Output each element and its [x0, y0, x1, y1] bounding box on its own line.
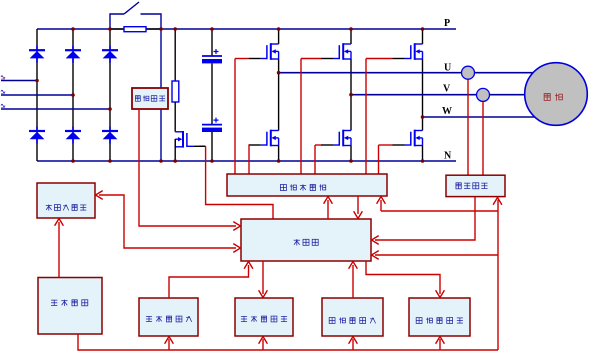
wire rectifier leg 3: [109, 29, 111, 161]
wire drive-protect to controller: [354, 196, 363, 219]
wire gate Q3: [366, 59, 393, 175]
wire voltage-detect to controller: [139, 109, 241, 230]
motor M1 (电机): [525, 63, 588, 126]
wire leg2 drain lower: [350, 95, 352, 131]
block digital input (开关量输入): [139, 298, 198, 336]
svg-text:N: N: [444, 151, 452, 162]
junction on N at x=212: [210, 159, 214, 163]
wire psu-bus to drive-protect: [377, 197, 386, 212]
junction W: [421, 115, 425, 119]
wire phase V: [351, 94, 525, 96]
junction on N at x=175.2: [173, 159, 177, 163]
wire AC input L1: [1, 80, 37, 82]
junction on P at x=351: [349, 27, 353, 31]
junction on P at x=422.5: [421, 27, 425, 31]
junction on P at x=278.6: [277, 27, 281, 31]
block voltage detect (电压检测): [132, 88, 168, 109]
wire keypad to controller: [96, 191, 241, 253]
wire leg1 source to N: [278, 146, 280, 162]
svg-text:V: V: [443, 84, 451, 95]
svg-text:W: W: [442, 106, 452, 117]
block analog input (模拟量输入): [322, 298, 383, 336]
wire leg2 source to V: [350, 59, 352, 95]
wire rail to digital-output: [259, 337, 268, 351]
diode D2 (rectifier top): [65, 46, 81, 63]
wire rectifier leg 1: [36, 29, 38, 161]
block current detect (电流检测): [446, 175, 505, 196]
wire AC input L2: [1, 94, 73, 96]
wire rail to analog-output: [436, 337, 445, 351]
current sensor CT1: [462, 66, 475, 79]
junction U: [277, 71, 281, 75]
diode D5 (rectifier bottom): [65, 127, 81, 144]
wire psu riser: [493, 198, 502, 351]
transistor Q4 (lower U): [249, 130, 279, 147]
block digital output (开关量输出): [235, 298, 293, 336]
wire gate Q1: [235, 59, 249, 175]
node label W: [442, 106, 452, 117]
junction on N at x=278.6: [277, 159, 281, 163]
junction on N at x=351: [349, 159, 353, 163]
wire P bus (node P): [37, 28, 456, 30]
junction AC L1: [35, 79, 39, 83]
transistor Q2 (upper V): [321, 43, 351, 60]
wire leg3 drain lower: [422, 117, 424, 131]
wire P to C1: [211, 29, 213, 56]
wire leg3 drain upper: [422, 29, 424, 44]
wire PSU bottom rail: [78, 334, 498, 350]
wire gate Q7 to controller: [206, 146, 273, 219]
junction on N at x=161: [159, 159, 163, 163]
diode D6 (rectifier bottom): [102, 127, 118, 144]
diode D4 (rectifier bottom): [29, 127, 45, 144]
junction on N at x=73: [71, 159, 75, 163]
node label V: [443, 84, 451, 95]
svg-text:P: P: [444, 18, 450, 29]
junction on P at x=175.2: [173, 27, 177, 31]
capacitor C1: [202, 49, 222, 63]
wire psu-bus to controller right: [372, 251, 499, 260]
wire psu to keypad: [55, 219, 64, 278]
wire brake leg upper: [174, 29, 176, 81]
switch S1 (bypass): [110, 2, 161, 29]
junction on P at x=73: [71, 27, 75, 31]
svg-text:U: U: [444, 63, 451, 74]
wire phase W: [423, 116, 535, 118]
diode D3 (rectifier top): [102, 46, 118, 63]
wire controller to drive-protect: [324, 197, 333, 220]
wire N bus (node N): [37, 160, 456, 162]
junction on P at x=161: [159, 27, 163, 31]
wire C1 to C2: [211, 63, 213, 124]
wire CT2 to current detect: [482, 95, 484, 175]
wire gate Q4: [248, 145, 250, 174]
wire controller to digital-output: [259, 261, 268, 298]
capacitor C2: [202, 118, 222, 132]
wire leg2 drain upper: [350, 29, 352, 44]
transistor Q3 (upper W): [393, 43, 423, 60]
wire leg2 source to N: [350, 146, 352, 162]
wire voltage sense (P to N): [160, 29, 162, 161]
resistor R1 (brake): [172, 81, 179, 102]
wire AC input L3: [1, 108, 110, 110]
transistor Q1 (upper U): [249, 43, 279, 60]
node label N: [444, 151, 452, 162]
AC input source L3: [1, 104, 5, 107]
wire rectifier leg 2: [72, 29, 74, 161]
wire leg1 drain upper: [278, 29, 280, 44]
wire gate Q2: [301, 59, 321, 175]
block analog output (模拟量输出): [409, 298, 470, 336]
wire leg1 drain lower: [278, 73, 280, 131]
transistor Q6 (lower W): [393, 130, 423, 147]
wire Q7 gate lead: [199, 145, 206, 147]
node label U: [444, 63, 451, 74]
wire leg3 source to W: [422, 59, 424, 117]
diode D1 (rectifier top): [29, 46, 45, 63]
wire Q7 source to N: [174, 139, 176, 161]
wire analog-input to controller: [349, 262, 358, 299]
block controller (控制器): [241, 219, 371, 261]
block keypad-display (按键及显示): [37, 183, 95, 218]
fuse FU1: [110, 27, 161, 32]
wire gate Q6: [379, 145, 393, 174]
wire phase U: [279, 72, 534, 74]
current sensor CT2: [477, 88, 490, 101]
wire gate Q5: [315, 145, 321, 174]
wire C2 to N: [211, 132, 213, 161]
junction on P at x=212: [210, 27, 214, 31]
junction on N at x=110: [108, 159, 112, 163]
wire controller to analog-output: [366, 261, 444, 298]
junction AC L2: [71, 93, 75, 97]
AC input source L1: [1, 76, 5, 79]
block switching PSU (开关电源): [38, 278, 102, 335]
block drive-protect (驱动和保护): [227, 174, 387, 196]
wire current-detect to controller: [372, 197, 476, 244]
wire leg3 source to N: [422, 146, 424, 162]
wire CT1 to current detect: [467, 73, 469, 175]
junction on P at x=110: [108, 27, 112, 31]
transistor Q7 (brake chopper): [175, 131, 205, 148]
wire leg1 source to U: [278, 59, 280, 73]
junction AC L3: [108, 107, 112, 111]
wire digital-input to controller: [169, 262, 253, 299]
AC input source L2: [1, 90, 5, 93]
junction V: [349, 93, 353, 97]
junction on N at x=422.5: [421, 159, 425, 163]
transistor Q5 (lower V): [321, 130, 351, 147]
wire rail to analog-input: [349, 337, 358, 351]
wire psu-bus branch horizontal: [381, 210, 498, 212]
wire rail to digital-input: [165, 337, 174, 351]
node label P: [444, 18, 450, 29]
wire resistor to Q7: [174, 102, 176, 132]
